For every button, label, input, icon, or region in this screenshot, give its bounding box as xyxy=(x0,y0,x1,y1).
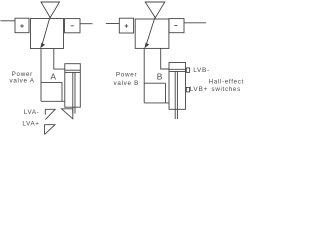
svg-text:LVB-: LVB- xyxy=(193,67,210,74)
svg-text:A: A xyxy=(50,72,56,82)
wire loop B top xyxy=(144,82,165,84)
piston A line2 xyxy=(65,71,81,73)
solenoid box A- xyxy=(65,19,81,33)
wire loop A right xyxy=(61,82,63,101)
wire loop A top xyxy=(41,81,62,83)
svg-text:valve B: valve B xyxy=(114,80,140,87)
wire loop B bottom xyxy=(144,102,169,104)
tab LVB+ xyxy=(185,89,188,91)
valve body A xyxy=(31,19,64,49)
minus sign A xyxy=(71,25,74,27)
svg-text:LVB+: LVB+ xyxy=(190,86,208,93)
switch triangle LVA+ xyxy=(45,125,56,135)
piston rod B line1 xyxy=(174,71,176,119)
valve arrow A xyxy=(42,17,50,45)
valve body B xyxy=(135,19,169,48)
vent triangle valve B xyxy=(145,2,165,18)
minus sign B xyxy=(174,25,177,27)
plus sign B xyxy=(125,24,129,28)
wire loop B right xyxy=(165,83,167,103)
wire down from arrow B xyxy=(143,48,145,103)
solenoid box B+ xyxy=(119,18,133,33)
hall switch box LVB+ xyxy=(186,87,189,92)
hall switch box LVB- xyxy=(186,68,189,73)
piston rod A line1 xyxy=(72,72,74,113)
svg-text:Hall-effect: Hall-effect xyxy=(209,78,244,85)
wire left lead B xyxy=(106,23,119,25)
svg-text:valve A: valve A xyxy=(9,78,34,85)
svg-text:LVA+: LVA+ xyxy=(22,121,39,128)
piston rod A line2 xyxy=(74,72,76,113)
piston B line1 xyxy=(169,68,186,70)
wire right lead B xyxy=(184,22,206,24)
svg-text:Power: Power xyxy=(116,72,137,79)
wire down-right from body A xyxy=(54,49,65,70)
svg-text:switches: switches xyxy=(212,86,241,93)
magnet triangle A xyxy=(62,109,73,119)
wire down from arrow A xyxy=(40,49,42,102)
piston rod B line2 xyxy=(176,71,178,119)
tab LVB- xyxy=(185,69,188,71)
svg-text:B: B xyxy=(157,71,163,81)
switch triangle LVA- xyxy=(45,109,55,119)
wire down-right from body B xyxy=(161,48,169,69)
plus sign A xyxy=(20,24,24,28)
wire left lead A xyxy=(1,20,16,22)
arrowhead B xyxy=(144,43,149,49)
svg-text:LVA-: LVA- xyxy=(24,109,40,116)
piston A line1 xyxy=(65,69,81,71)
solenoid box A+ xyxy=(15,18,29,33)
cylinder B barrel xyxy=(169,63,186,110)
piston B line2 xyxy=(169,70,186,72)
arrowhead A xyxy=(40,43,45,49)
cylinder A barrel xyxy=(65,64,81,107)
wire right lead A xyxy=(80,23,93,25)
solenoid box B- xyxy=(169,19,184,33)
valve arrow B xyxy=(146,17,155,45)
wire loop A bottom xyxy=(41,100,65,102)
vent triangle valve A xyxy=(41,2,60,18)
